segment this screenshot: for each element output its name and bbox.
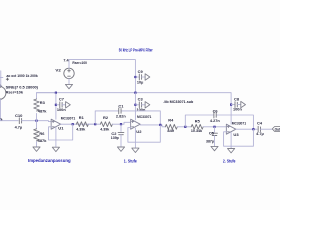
svg-text:2. Stufe: 2. Stufe (223, 159, 236, 164)
svg-text:Impedanzanpassung: Impedanzanpassung (28, 158, 71, 163)
resistor R2 (100, 122, 112, 127)
capacitor C2 (118, 132, 124, 134)
junction U3 output node (252, 128, 254, 130)
svg-text:10.34k: 10.34k (191, 129, 203, 133)
ground arrow at C8 (241, 101, 246, 107)
wire C9 lead (135, 76, 138, 78)
wire C1 feedback path (95, 111, 160, 125)
wire supply rail (37, 92, 232, 94)
svg-text:100n: 100n (57, 108, 67, 112)
svg-text:4.39k: 4.39k (76, 127, 86, 131)
junction U1 output node (72, 123, 74, 125)
junction C9 tap (134, 76, 136, 78)
junction C2 tap (120, 123, 122, 125)
svg-text:MC33071: MC33071 (137, 115, 151, 119)
svg-text:2.82n: 2.82n (116, 115, 127, 119)
ground under C2 (117, 147, 124, 151)
wire U1 output (61, 123, 96, 125)
wire U3 feedback loop (224, 129, 254, 146)
wire C7 lead (56, 104, 59, 106)
ground under U3 (228, 149, 235, 153)
op-amp U3 (226, 124, 236, 134)
wire U2 ground stub (134, 128, 136, 148)
op-amp U2 (131, 119, 141, 129)
resistor R3 (34, 99, 40, 111)
svg-text:4.7µ: 4.7µ (15, 125, 23, 129)
wire R3 leads / rail corner (37, 93, 56, 121)
svg-text:U2: U2 (136, 130, 141, 134)
voltage source V2 (64, 68, 74, 78)
wire rail right leg to U3 power (230, 93, 232, 125)
svg-text:4.7µ: 4.7µ (256, 132, 264, 136)
svg-text:Rser=10k: Rser=10k (6, 91, 24, 95)
svg-text:V2: V2 (55, 69, 60, 73)
ground under C5 (211, 146, 218, 150)
svg-text:139p: 139p (111, 136, 120, 140)
svg-text:100n: 100n (233, 108, 243, 112)
junction C7 branch (55, 104, 57, 106)
ground under U2 (132, 148, 139, 152)
svg-text:MC33071: MC33071 (232, 121, 246, 125)
svg-text:MC33071: MC33071 (61, 116, 75, 120)
svg-text:SINE(7 0.5 28000): SINE(7 0.5 28000) (6, 85, 39, 89)
wire R2 to U2 input (112, 122, 130, 124)
wire supply leg to U2 power (134, 93, 136, 120)
wire C6 feedback path (185, 115, 253, 129)
wire C5 upper lead (214, 127, 216, 132)
wire R6 leads (36, 121, 38, 147)
svg-text:387p: 387p (206, 139, 215, 143)
wire U3 output (236, 128, 257, 130)
junction rail C7 tap (55, 92, 57, 94)
wire R5 to U3 input (203, 126, 226, 128)
capacitor C1 (119, 108, 121, 114)
svg-text:.lib MC33071.sub: .lib MC33071.sub (163, 100, 194, 104)
wire U2 feedback loop (128, 125, 160, 142)
junction C3 branch (134, 104, 136, 106)
ground under U1 (52, 147, 59, 151)
capacitor C10 (19, 118, 21, 124)
wire C2 upper lead (120, 124, 122, 131)
wire C10 to U1 input (22, 120, 52, 123)
svg-text:487k: 487k (38, 109, 48, 113)
wire C3 lead to ground (142, 104, 146, 106)
svg-text:Out: Out (275, 127, 280, 131)
wire C4 to Out port (260, 128, 272, 130)
wire C8 lead to ground (237, 104, 241, 106)
svg-text:849: 849 (167, 129, 174, 133)
svg-text:487k: 487k (38, 139, 48, 143)
junction R1-R2 node (94, 123, 96, 125)
wire V1 bottom lead (0, 99, 1, 120)
wire U2 output (140, 125, 165, 127)
svg-text:4.39k: 4.39k (100, 127, 110, 131)
svg-text:1. Stufe: 1. Stufe (124, 158, 137, 163)
svg-text:50 kHz LP Pre-MPX Filter: 50 kHz LP Pre-MPX Filter (119, 48, 153, 54)
voltage source V1 (0, 85, 6, 100)
wire C8 lead (231, 104, 234, 106)
capacitor C5 (212, 133, 218, 135)
svg-text:4.27n: 4.27n (210, 119, 221, 123)
wire U1 feedback loop (49, 124, 73, 140)
svg-text:100n: 100n (137, 108, 147, 112)
svg-text:U3: U3 (233, 133, 238, 137)
svg-text:Rser=100: Rser=100 (72, 61, 87, 65)
wire V2 bottom stub (68, 79, 70, 85)
capacitor C4 (258, 126, 260, 132)
svg-text:C3: C3 (138, 98, 143, 102)
svg-text:C6: C6 (213, 109, 218, 113)
node Out port (272, 127, 280, 132)
svg-text:U1: U1 (58, 127, 63, 131)
wire R4 to R5 (177, 126, 191, 128)
junction C8 branch (230, 104, 232, 106)
wire C9 lead to ground (142, 76, 146, 78)
svg-text:10µ: 10µ (137, 80, 143, 84)
ground under R6 (33, 147, 40, 151)
wire C3 lead (135, 104, 138, 106)
resistor R5 (191, 124, 203, 129)
capacitor C6 (214, 112, 216, 118)
ground under V2 (65, 84, 72, 88)
svg-text:R3: R3 (40, 101, 45, 105)
svg-text:.ac oct 1000 1k 200k: .ac oct 1000 1k 200k (6, 74, 39, 78)
junction rail center tap (134, 92, 136, 94)
wire V1 top stub (0, 71, 3, 87)
capacitor C9 (139, 74, 141, 80)
ground arrow at C9 (145, 74, 150, 80)
ground arrow at C7 (66, 102, 71, 108)
wire C5 lower lead (214, 136, 216, 147)
ground arrow at C3 (145, 102, 150, 108)
svg-text:C8: C8 (234, 97, 239, 101)
svg-text:C10: C10 (15, 114, 22, 118)
resistor R4 (165, 124, 177, 129)
resistor R1 (76, 122, 88, 127)
capacitor C8 (235, 102, 237, 108)
capacitor C7 (60, 102, 62, 108)
wire U3 ground stub (230, 132, 232, 148)
wire U1 ground stub (55, 127, 57, 147)
svg-text:R6: R6 (39, 132, 44, 136)
svg-text:R5: R5 (195, 120, 200, 124)
capacitor C3 (139, 102, 141, 108)
svg-text:R1: R1 (79, 116, 84, 120)
svg-text:C7: C7 (59, 98, 64, 102)
junction C5 tap (213, 126, 215, 128)
wire C7 lead to ground (62, 104, 66, 106)
wire signal to C10 (0, 120, 18, 122)
svg-text:C1: C1 (118, 104, 123, 108)
svg-text:R2: R2 (103, 116, 108, 120)
svg-text:C9: C9 (138, 70, 143, 74)
junction R4-R5 node (184, 126, 186, 128)
op-amp U1 (51, 119, 61, 129)
resistor R6 (34, 129, 40, 141)
wire C2 lower lead (120, 135, 122, 147)
junction U2 output node (159, 124, 161, 126)
junction bias node (35, 120, 37, 122)
V1 plus marker (6, 78, 8, 80)
wire V2 top to supply leg (69, 60, 135, 93)
wire C7 leg to U1 power (55, 93, 57, 120)
wire R1 to R2 (88, 123, 100, 125)
svg-text:C5: C5 (209, 131, 214, 135)
